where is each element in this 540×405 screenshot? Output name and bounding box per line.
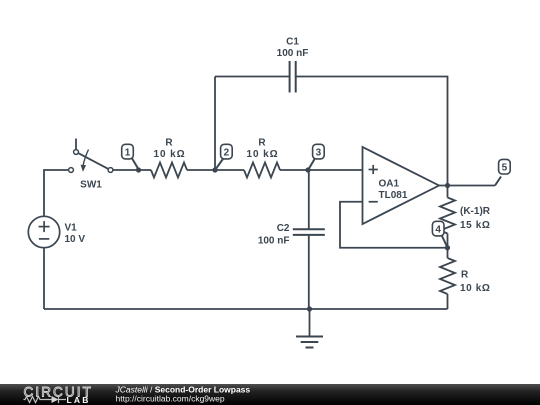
wire: switch to R1 — [113, 169, 151, 171]
svg-text:10 kΩ: 10 kΩ — [460, 283, 490, 294]
ground symbol — [296, 309, 323, 348]
capacitor C2 — [293, 229, 325, 235]
resistor (K-1)R leads — [447, 186, 449, 198]
resistor R bottom — [440, 258, 455, 294]
svg-text:2: 2 — [224, 148, 230, 159]
footer logo resistor-diode glyph — [24, 396, 67, 403]
svg-text:100 nF: 100 nF — [277, 48, 309, 59]
svg-text:10 V: 10 V — [65, 234, 86, 245]
node 3 balloon — [309, 144, 325, 169]
output junction dot — [445, 183, 450, 188]
svg-text:4: 4 — [435, 225, 441, 236]
svg-text:1: 1 — [125, 148, 131, 159]
svg-text:10 kΩ: 10 kΩ — [247, 149, 279, 160]
label C1 100 nF — [277, 36, 309, 59]
svg-text:C1: C1 — [286, 36, 299, 47]
node 3 junction dot — [305, 167, 310, 172]
svg-text:R: R — [258, 138, 266, 149]
label OA1 TL081 — [379, 179, 408, 201]
svg-text:15 kΩ: 15 kΩ — [460, 220, 490, 231]
wire: C2 bottom lead to ground rail — [308, 235, 310, 309]
wire: bottom ground rail — [44, 308, 448, 310]
svg-text:V1: V1 — [65, 223, 78, 234]
node 2 balloon — [216, 144, 233, 169]
label V1 10 V — [65, 223, 86, 245]
label R 10 kOhm (bottom) — [460, 270, 490, 295]
node 5 balloon — [495, 159, 510, 185]
svg-text:3: 3 — [316, 148, 322, 159]
label R 10 kOhm (R1) — [154, 138, 186, 160]
op-amp OA1 — [363, 147, 440, 224]
wire: C2 top lead from node 3 — [308, 170, 310, 229]
svg-text:R: R — [165, 138, 173, 149]
svg-text:OA1: OA1 — [379, 179, 400, 190]
resistor R2 — [244, 163, 280, 178]
wire: op-amp output — [439, 185, 495, 187]
resistor (K-1)R — [440, 198, 455, 234]
wire: V1 top vertical and horizontal to switch — [44, 170, 69, 216]
wire: V1 top to switch left — [43, 248, 45, 309]
wire: C1 to top right corner and down to output — [296, 77, 448, 186]
wire: node 2 up to C1 — [214, 77, 216, 171]
node 1 junction dot — [136, 167, 141, 172]
footer bar — [0, 384, 540, 405]
wire: top left to C1 — [215, 76, 290, 78]
node 4 junction dot — [445, 245, 450, 250]
svg-text:C2: C2 — [277, 223, 290, 234]
svg-text:(K-1)R: (K-1)R — [460, 206, 491, 217]
svg-text:TL081: TL081 — [379, 190, 408, 201]
svg-text:LAB: LAB — [67, 395, 91, 405]
switch SW1 — [69, 139, 113, 173]
svg-text:100 nF: 100 nF — [258, 235, 290, 246]
label R 10 kOhm (R2) — [247, 138, 279, 160]
ground rail junction dot — [307, 306, 312, 311]
wire: R2 to op-amp + input — [280, 169, 363, 171]
capacitor C1 — [290, 61, 296, 93]
node 1 balloon — [122, 144, 139, 169]
wire: feedback from - input — [340, 202, 448, 248]
svg-text:http://circuitlab.com/ckg9wep: http://circuitlab.com/ckg9wep — [116, 394, 225, 404]
label (K-1)R 15 kOhm — [460, 206, 491, 231]
voltage source V1 — [28, 216, 59, 247]
svg-text:R: R — [461, 270, 469, 281]
svg-text:SW1: SW1 — [80, 179, 102, 190]
svg-text:5: 5 — [502, 163, 508, 174]
resistor R1 — [151, 163, 187, 178]
resistor R bottom leads — [447, 248, 449, 258]
wire: R1 to R2 — [187, 169, 244, 171]
node 4 balloon — [432, 221, 447, 246]
svg-text:10 kΩ: 10 kΩ — [154, 149, 186, 160]
node 2 junction dot — [212, 167, 217, 172]
label C2 100 nF — [258, 223, 290, 246]
